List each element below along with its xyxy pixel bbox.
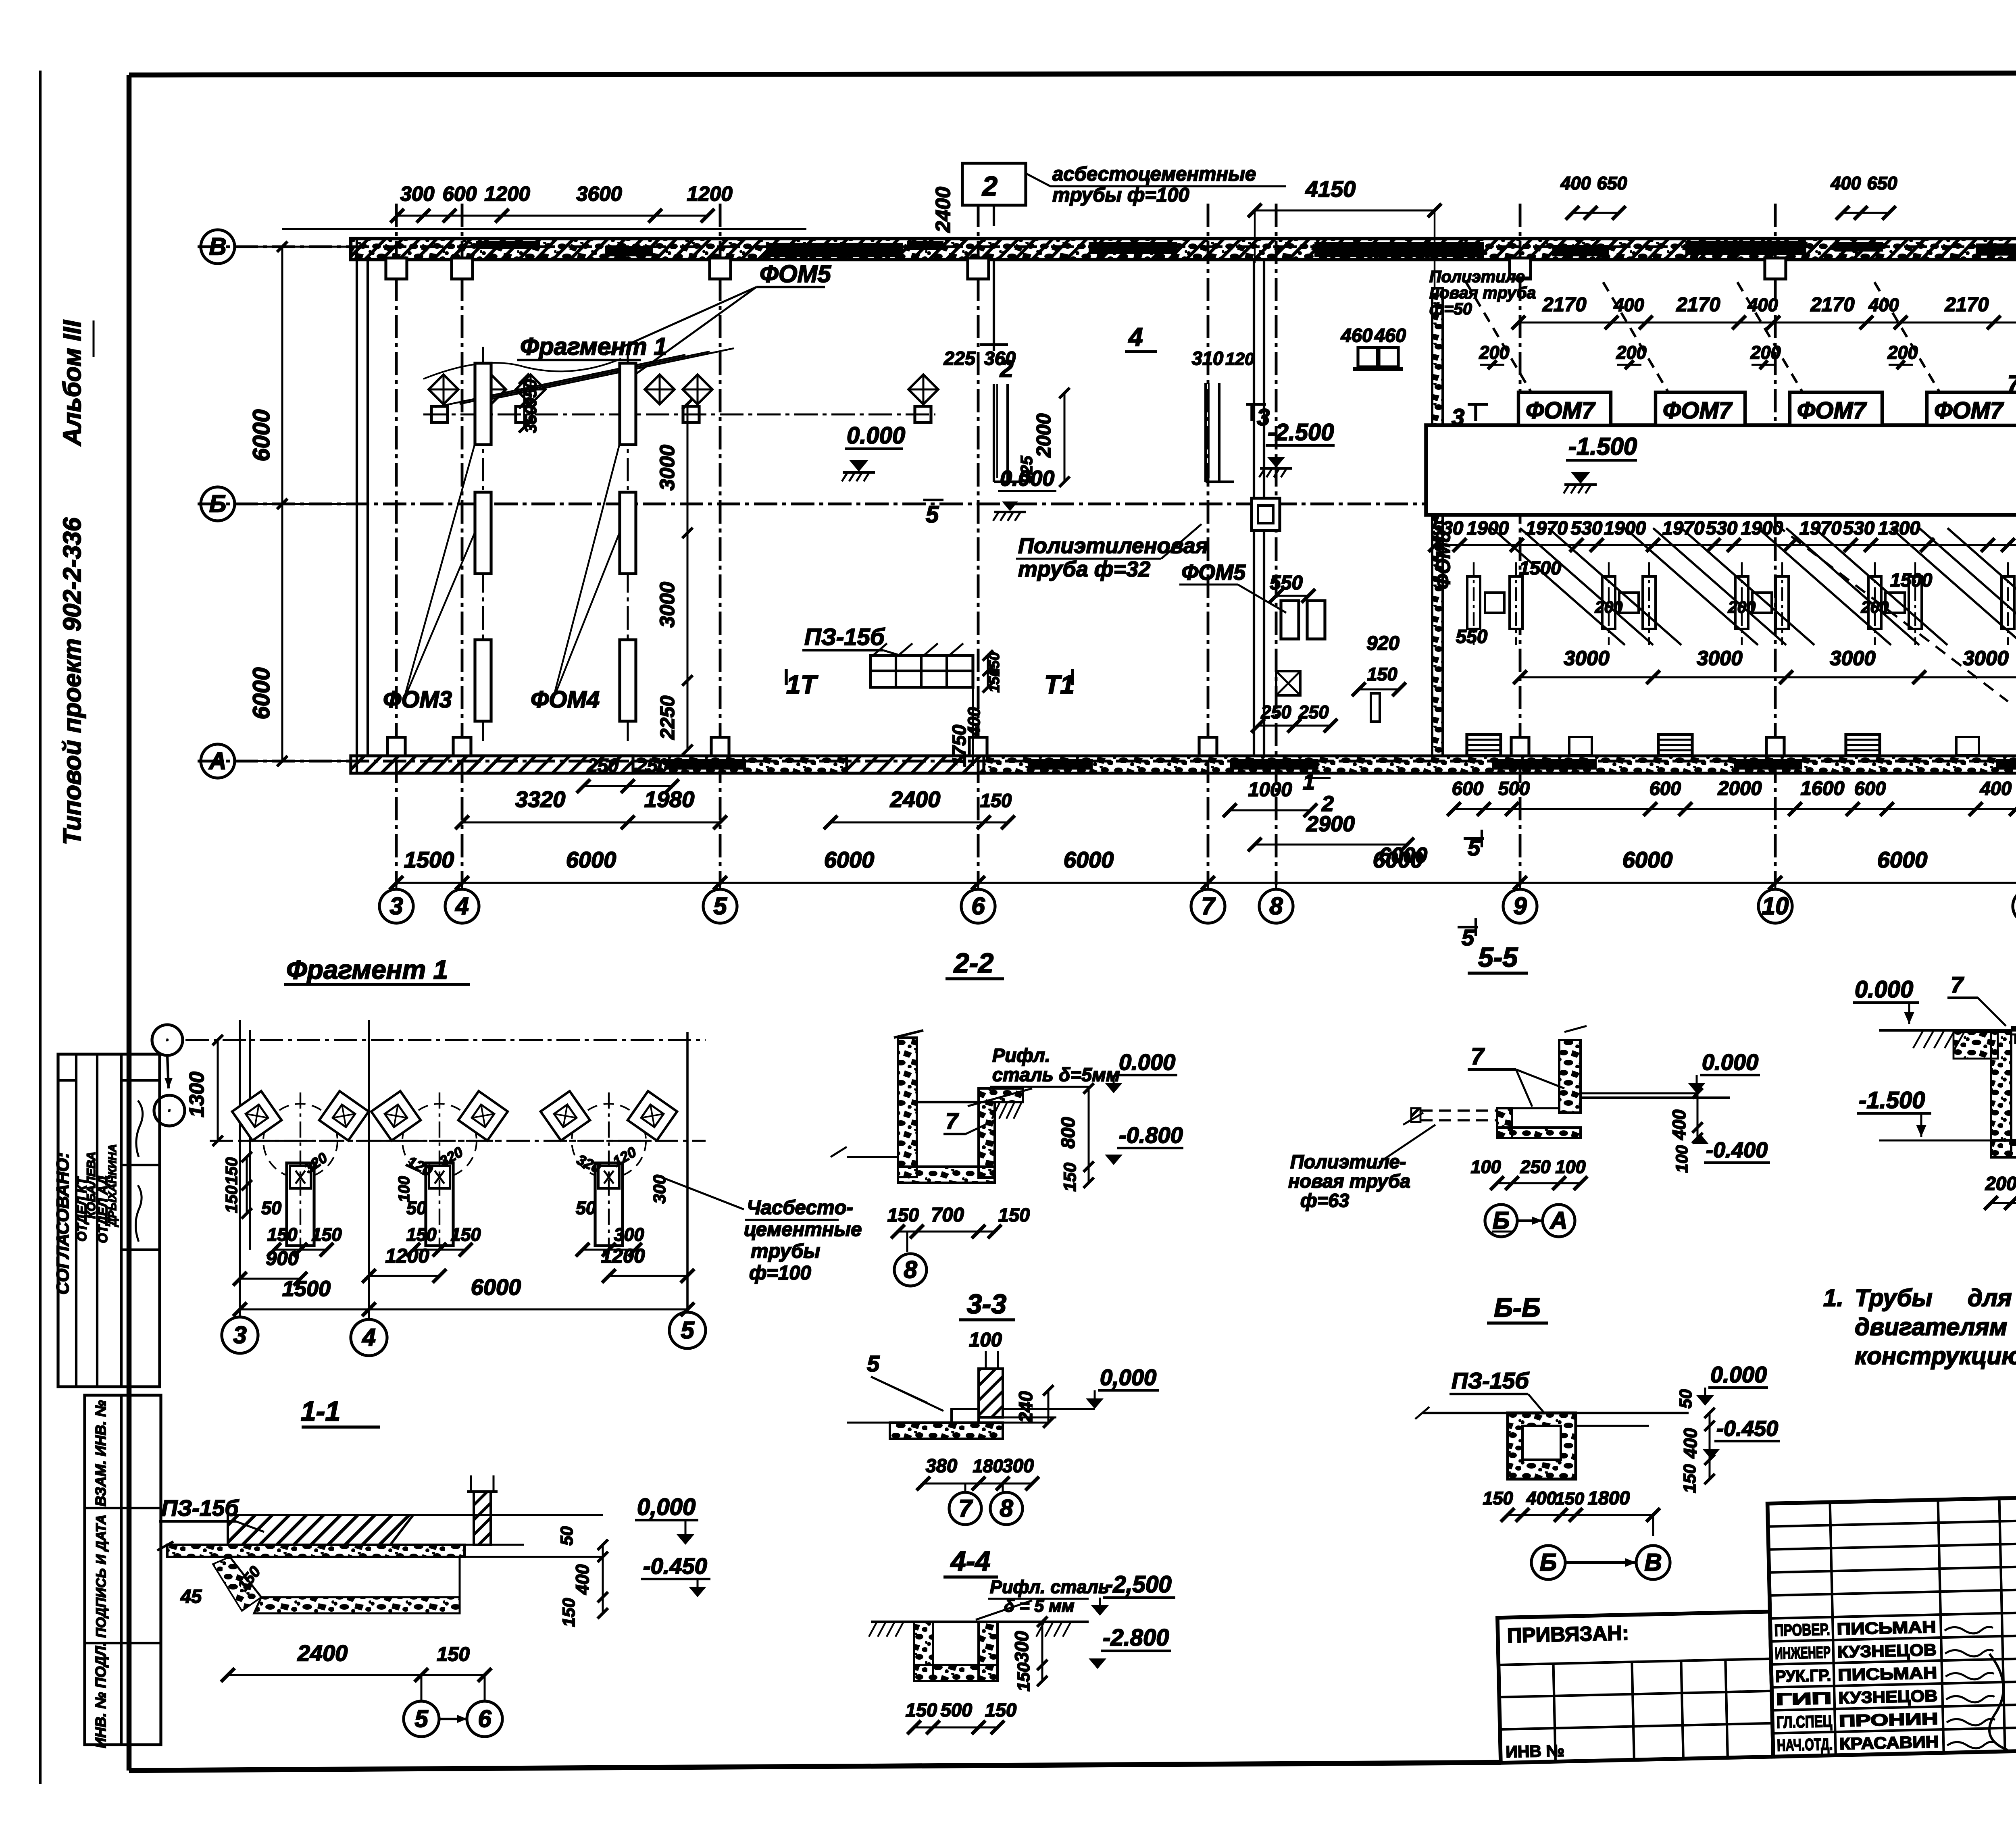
svg-text:1980: 1980 bbox=[644, 786, 695, 812]
svg-text:ДРЫХАНКИНА: ДРЫХАНКИНА bbox=[106, 1144, 119, 1227]
svg-text:6000: 6000 bbox=[1622, 847, 1673, 872]
svg-text:150: 150 bbox=[887, 1204, 919, 1225]
svg-text:ф=63: ф=63 bbox=[1300, 1190, 1349, 1211]
svg-text:1970: 1970 bbox=[1526, 517, 1568, 539]
svg-text:2250: 2250 bbox=[657, 695, 679, 740]
svg-text:1200: 1200 bbox=[385, 1245, 429, 1267]
svg-text:2: 2 bbox=[981, 171, 998, 202]
svg-text:Чacбecтo-: Чacбecтo- bbox=[747, 1197, 853, 1219]
svg-text:250: 250 bbox=[636, 755, 668, 776]
svg-text:250: 250 bbox=[1520, 1157, 1550, 1177]
svg-text:-2.500: -2.500 bbox=[1268, 419, 1334, 445]
svg-text:950: 950 bbox=[521, 379, 540, 407]
svg-text:100: 100 bbox=[1672, 1145, 1691, 1173]
svg-text:250: 250 bbox=[1298, 702, 1329, 722]
svg-text:Т1: Т1 bbox=[1044, 670, 1075, 699]
svg-text:45: 45 bbox=[180, 1585, 202, 1607]
svg-text:1300: 1300 bbox=[185, 1072, 208, 1117]
svg-text:А: А bbox=[1549, 1207, 1567, 1234]
svg-text:Б-Б: Б-Б bbox=[1494, 1292, 1540, 1322]
svg-text:1500: 1500 bbox=[404, 847, 454, 872]
svg-text:50: 50 bbox=[261, 1198, 281, 1218]
svg-text:2170: 2170 bbox=[1944, 294, 1989, 316]
svg-text:530: 530 bbox=[1843, 517, 1874, 539]
svg-text:Типовой проект 902-2-336: Типовой проект 902-2-336 bbox=[58, 517, 86, 845]
svg-text:150: 150 bbox=[985, 1699, 1016, 1721]
svg-text:1500: 1500 bbox=[1519, 557, 1562, 578]
svg-text:А: А bbox=[208, 747, 226, 774]
svg-text:асбестоцементные: асбестоцементные bbox=[1052, 163, 1256, 185]
svg-text:8: 8 bbox=[904, 1256, 917, 1283]
svg-text:4: 4 bbox=[455, 893, 469, 920]
svg-text:6000: 6000 bbox=[566, 847, 616, 872]
svg-text:3000: 3000 bbox=[1697, 647, 1742, 670]
svg-text:50: 50 bbox=[576, 1198, 596, 1218]
svg-text:150: 150 bbox=[437, 1644, 470, 1665]
svg-text:600: 600 bbox=[1452, 778, 1483, 799]
svg-text:ИНВ. № ПОДЛ.: ИНВ. № ПОДЛ. bbox=[92, 1642, 109, 1748]
svg-text:Б: Б bbox=[209, 490, 226, 517]
svg-text:600: 600 bbox=[442, 182, 477, 205]
svg-text:2400: 2400 bbox=[931, 187, 954, 233]
svg-text:150: 150 bbox=[450, 1224, 481, 1245]
svg-text:3600: 3600 bbox=[576, 182, 622, 205]
svg-text:3000: 3000 bbox=[1963, 647, 2008, 670]
svg-text:ФОМ4: ФОМ4 bbox=[531, 687, 600, 713]
svg-text:200: 200 bbox=[1728, 598, 1756, 616]
svg-text:550: 550 bbox=[1456, 626, 1487, 647]
svg-text:2170: 2170 bbox=[1676, 294, 1720, 316]
svg-text:ФОМ8: ФОМ8 bbox=[1433, 531, 1454, 589]
svg-text:0.000: 0.000 bbox=[1000, 466, 1054, 491]
svg-text:50: 50 bbox=[557, 1526, 577, 1546]
svg-text:350: 350 bbox=[521, 406, 540, 433]
svg-text:3000: 3000 bbox=[656, 582, 679, 627]
svg-text:100: 100 bbox=[1470, 1157, 1501, 1177]
svg-text:РУК.ГР.: РУК.ГР. bbox=[1775, 1666, 1831, 1685]
svg-text:3: 3 bbox=[389, 893, 403, 920]
svg-text:0.000: 0.000 bbox=[1119, 1049, 1175, 1075]
svg-text:225: 225 bbox=[943, 347, 976, 369]
svg-text:150: 150 bbox=[1060, 1163, 1080, 1192]
svg-text:300: 300 bbox=[400, 182, 434, 205]
svg-text:ПИСЬМАН: ПИСЬМАН bbox=[1838, 1663, 1937, 1684]
svg-text:5: 5 bbox=[926, 501, 939, 528]
svg-text:1-1: 1-1 bbox=[301, 1396, 340, 1427]
svg-text:ИНВ №: ИНВ № bbox=[1506, 1741, 1565, 1761]
svg-text:8: 8 bbox=[1000, 1495, 1013, 1522]
svg-text:200: 200 bbox=[1861, 598, 1889, 616]
svg-text:7: 7 bbox=[1471, 1043, 1485, 1069]
svg-text:1600: 1600 bbox=[1800, 778, 1844, 799]
svg-text:цементные: цементные bbox=[744, 1219, 862, 1240]
svg-text:1200: 1200 bbox=[687, 182, 732, 205]
svg-text:150: 150 bbox=[311, 1224, 342, 1245]
svg-text:6000: 6000 bbox=[248, 409, 275, 461]
svg-text:-2.800: -2.800 bbox=[1103, 1625, 1169, 1651]
svg-text:В: В bbox=[209, 233, 226, 260]
svg-text:новая труба: новая труба bbox=[1288, 1170, 1410, 1192]
svg-text:ГЛ.СПЕЦ: ГЛ.СПЕЦ bbox=[1776, 1712, 1832, 1731]
svg-text:ФОМ3: ФОМ3 bbox=[383, 687, 452, 713]
svg-text:150: 150 bbox=[222, 1186, 241, 1213]
svg-text:8: 8 bbox=[1269, 893, 1283, 920]
svg-text:двигателям: двигателям bbox=[1855, 1313, 2007, 1340]
svg-text:6000: 6000 bbox=[471, 1274, 521, 1300]
svg-text:0,000: 0,000 bbox=[1100, 1365, 1156, 1390]
svg-text:ФОМ7: ФОМ7 bbox=[1934, 397, 2004, 424]
svg-text:100: 100 bbox=[969, 1329, 1002, 1351]
svg-text:-0.400: -0.400 bbox=[1706, 1138, 1768, 1162]
svg-text:150: 150 bbox=[906, 1699, 937, 1721]
svg-text:360: 360 bbox=[984, 347, 1016, 369]
svg-text:3000: 3000 bbox=[1564, 647, 1609, 670]
svg-text:3320: 3320 bbox=[515, 786, 566, 812]
svg-text:200: 200 bbox=[1595, 598, 1623, 616]
svg-text:ПЗ-15б: ПЗ-15б bbox=[1452, 1368, 1529, 1393]
svg-text:7: 7 bbox=[946, 1108, 959, 1134]
svg-text:-2,500: -2,500 bbox=[1105, 1571, 1171, 1598]
svg-text:ФОМ5: ФОМ5 bbox=[1181, 560, 1246, 585]
svg-text:200: 200 bbox=[1887, 342, 1918, 363]
svg-text:400: 400 bbox=[1560, 173, 1591, 193]
svg-text:ф=100: ф=100 bbox=[749, 1262, 811, 1284]
svg-text:2400: 2400 bbox=[890, 786, 941, 812]
svg-text:конструкцию: конструкцию bbox=[1855, 1342, 2016, 1369]
svg-text:5: 5 bbox=[414, 1705, 429, 1732]
svg-text:380: 380 bbox=[926, 1455, 957, 1476]
svg-text:1900: 1900 bbox=[1604, 517, 1646, 539]
svg-text:Рифл. сталь: Рифл. сталь bbox=[990, 1577, 1109, 1597]
svg-text:650: 650 bbox=[1867, 173, 1897, 193]
svg-text:Полиэтиленовая: Полиэтиленовая bbox=[1018, 534, 1208, 558]
svg-text:7: 7 bbox=[2008, 370, 2016, 396]
svg-text:920: 920 bbox=[1366, 632, 1400, 654]
svg-text:550: 550 bbox=[1270, 572, 1303, 594]
svg-text:В: В bbox=[1644, 1549, 1662, 1576]
svg-text:100: 100 bbox=[1555, 1157, 1585, 1177]
svg-text:5: 5 bbox=[1462, 925, 1475, 950]
svg-text:трубы ф=100: трубы ф=100 bbox=[1052, 184, 1189, 206]
svg-text:150: 150 bbox=[406, 1224, 436, 1245]
svg-text:150: 150 bbox=[1367, 664, 1397, 685]
svg-text:300: 300 bbox=[1011, 1631, 1032, 1662]
svg-text:400: 400 bbox=[1747, 295, 1778, 315]
svg-text:5: 5 bbox=[681, 1317, 695, 1344]
svg-text:4: 4 bbox=[362, 1324, 375, 1351]
svg-text:400: 400 bbox=[1680, 1428, 1701, 1458]
svg-text:1500: 1500 bbox=[282, 1277, 331, 1301]
svg-text:труба ф=32: труба ф=32 bbox=[1018, 557, 1150, 581]
svg-text:6: 6 bbox=[478, 1705, 492, 1732]
svg-text:2900: 2900 bbox=[1306, 812, 1355, 836]
svg-text:50: 50 bbox=[1676, 1389, 1695, 1409]
svg-text:150: 150 bbox=[1483, 1488, 1513, 1508]
svg-text:6000: 6000 bbox=[1379, 843, 1427, 868]
svg-text:0.000: 0.000 bbox=[1855, 976, 1913, 1003]
svg-text:400: 400 bbox=[1669, 1109, 1689, 1140]
svg-text:150: 150 bbox=[222, 1157, 241, 1185]
svg-text:ФОМ7: ФОМ7 bbox=[1526, 397, 1596, 424]
svg-text:1970: 1970 bbox=[1799, 517, 1842, 539]
svg-text:500: 500 bbox=[941, 1699, 972, 1721]
svg-text:10: 10 bbox=[1762, 893, 1789, 920]
svg-text:2400: 2400 bbox=[297, 1640, 348, 1666]
svg-text:6: 6 bbox=[971, 893, 985, 920]
svg-text:400: 400 bbox=[1613, 295, 1644, 315]
svg-text:6000: 6000 bbox=[248, 667, 275, 719]
svg-text:3: 3 bbox=[233, 1321, 246, 1348]
svg-text:150: 150 bbox=[998, 1204, 1030, 1225]
svg-text:ГИП: ГИП bbox=[1776, 1689, 1832, 1708]
svg-text:2-2: 2-2 bbox=[953, 948, 993, 978]
svg-text:4-4: 4-4 bbox=[950, 1546, 990, 1577]
svg-text:200: 200 bbox=[1616, 342, 1646, 363]
svg-text:310: 310 bbox=[1192, 347, 1223, 369]
svg-text:120: 120 bbox=[1225, 350, 1254, 369]
svg-text:1: 1 bbox=[1303, 770, 1315, 794]
svg-text:ПИСЬМАН: ПИСЬМАН bbox=[1837, 1617, 1936, 1638]
svg-text:1800: 1800 bbox=[1588, 1487, 1630, 1508]
svg-text:0.000: 0.000 bbox=[1702, 1049, 1758, 1075]
svg-text:ВЗАМ. ИНВ. №: ВЗАМ. ИНВ. № bbox=[92, 1400, 109, 1506]
svg-text:6000: 6000 bbox=[1064, 847, 1114, 872]
svg-text:3000: 3000 bbox=[1830, 647, 1875, 670]
svg-text:1900: 1900 bbox=[1467, 517, 1509, 539]
svg-text:1200: 1200 bbox=[484, 182, 530, 205]
svg-text:ф=50: ф=50 bbox=[1429, 300, 1472, 318]
svg-text:сталь δ=5мм: сталь δ=5мм bbox=[992, 1064, 1120, 1085]
svg-text:400: 400 bbox=[1868, 295, 1899, 315]
svg-text:5-5: 5-5 bbox=[1478, 942, 1518, 973]
svg-text:1500: 1500 bbox=[1890, 569, 1933, 591]
svg-text:1970: 1970 bbox=[1662, 517, 1705, 539]
svg-text:ПОДПИСЬ И ДАТА: ПОДПИСЬ И ДАТА bbox=[94, 1515, 109, 1638]
svg-text:530: 530 bbox=[1571, 517, 1602, 539]
svg-text:240: 240 bbox=[1015, 1391, 1036, 1423]
svg-text:Полиэтиле-: Полиэтиле- bbox=[1290, 1151, 1406, 1172]
svg-text:ПРИВЯЗАН:: ПРИВЯЗАН: bbox=[1507, 1621, 1629, 1647]
svg-text:600: 600 bbox=[1649, 778, 1681, 799]
svg-text:ПЗ-15б: ПЗ-15б bbox=[804, 624, 885, 650]
svg-text:НАЧ.ОТД.: НАЧ.ОТД. bbox=[1777, 1735, 1833, 1754]
svg-text:400: 400 bbox=[1980, 778, 2012, 799]
svg-text:200: 200 bbox=[1750, 342, 1781, 363]
svg-text:800: 800 bbox=[1057, 1117, 1079, 1148]
svg-text:1900: 1900 bbox=[1741, 517, 1783, 539]
svg-text:3: 3 bbox=[1257, 404, 1270, 431]
svg-text:0.000: 0.000 bbox=[847, 422, 905, 449]
svg-text:150: 150 bbox=[267, 1224, 297, 1245]
svg-text:Альбом III: Альбом III bbox=[58, 320, 86, 447]
svg-text:400: 400 bbox=[572, 1564, 593, 1595]
svg-text:530: 530 bbox=[1706, 517, 1737, 539]
svg-text:Рифл.: Рифл. bbox=[992, 1044, 1050, 1066]
svg-text:-0.450: -0.450 bbox=[1716, 1417, 1778, 1441]
svg-text:ИНЖЕНЕР: ИНЖЕНЕР bbox=[1774, 1643, 1831, 1662]
svg-text:КУЗНЕЦОВ: КУЗНЕЦОВ bbox=[1837, 1640, 1937, 1661]
svg-text:100: 100 bbox=[396, 1176, 413, 1202]
svg-text:-0.800: -0.800 bbox=[1119, 1122, 1183, 1148]
svg-text:В: В bbox=[167, 1039, 169, 1042]
svg-text:0,000: 0,000 bbox=[637, 1494, 696, 1520]
svg-text:Трубы: Трубы bbox=[1855, 1284, 1933, 1311]
svg-text:460: 460 bbox=[1341, 325, 1372, 346]
svg-text:7: 7 bbox=[1951, 972, 1964, 997]
svg-text:7: 7 bbox=[1201, 893, 1216, 920]
svg-text:600: 600 bbox=[1854, 778, 1886, 799]
svg-text:ПРОВЕР.: ПРОВЕР. bbox=[1774, 1620, 1830, 1640]
svg-text:трубы: трубы bbox=[751, 1240, 820, 1262]
svg-text:300: 300 bbox=[1002, 1455, 1034, 1476]
svg-text:250: 250 bbox=[587, 755, 619, 776]
svg-text:2170: 2170 bbox=[1810, 294, 1854, 316]
svg-text:3000: 3000 bbox=[656, 445, 679, 490]
svg-text:4150: 4150 bbox=[1305, 176, 1356, 202]
svg-text:1750: 1750 bbox=[948, 725, 970, 767]
svg-text:3-3: 3-3 bbox=[967, 1289, 1006, 1319]
svg-text:-1.500: -1.500 bbox=[1568, 433, 1637, 460]
svg-text:9: 9 bbox=[1513, 893, 1527, 920]
svg-text:7: 7 bbox=[958, 1495, 973, 1522]
svg-text:150: 150 bbox=[1014, 1662, 1033, 1692]
svg-text:Б: Б bbox=[1493, 1207, 1510, 1234]
svg-text:Б: Б bbox=[1540, 1549, 1557, 1576]
svg-text:КРАСАВИН: КРАСАВИН bbox=[1839, 1732, 1939, 1753]
svg-text:0.000: 0.000 bbox=[1710, 1362, 1767, 1387]
svg-text:650: 650 bbox=[1597, 173, 1627, 193]
svg-text:2000: 2000 bbox=[1717, 778, 1762, 799]
svg-text:1200: 1200 bbox=[601, 1245, 645, 1267]
svg-text:200: 200 bbox=[1985, 1173, 2016, 1194]
svg-text:460: 460 bbox=[1374, 325, 1406, 346]
svg-text:200: 200 bbox=[1479, 342, 1509, 363]
svg-text:Фрагмент 1: Фрагмент 1 bbox=[520, 333, 667, 360]
svg-text:СОГЛАСОВАНО:: СОГЛАСОВАНО: bbox=[53, 1153, 73, 1295]
svg-text:КУЗНЕЦОВ: КУЗНЕЦОВ bbox=[1838, 1686, 1938, 1707]
svg-text:5: 5 bbox=[867, 1351, 880, 1376]
svg-text:ФОМ5: ФОМ5 bbox=[760, 260, 831, 287]
svg-text:4: 4 bbox=[1128, 322, 1143, 352]
svg-text:1000: 1000 bbox=[1248, 779, 1292, 801]
svg-text:6000: 6000 bbox=[824, 847, 875, 872]
svg-text:300: 300 bbox=[614, 1224, 644, 1245]
svg-text:500: 500 bbox=[1498, 778, 1530, 799]
svg-text:150: 150 bbox=[1555, 1489, 1584, 1508]
svg-text:ПРОНИН: ПРОНИН bbox=[1839, 1709, 1938, 1730]
svg-text:для: для bbox=[1968, 1284, 2012, 1311]
svg-text:1Т: 1Т bbox=[786, 670, 818, 699]
svg-text:180: 180 bbox=[973, 1456, 1003, 1476]
svg-text:150: 150 bbox=[980, 790, 1012, 811]
svg-text:ФОМ7: ФОМ7 bbox=[1797, 397, 1867, 424]
svg-text:Фрагмент 1: Фрагмент 1 bbox=[286, 955, 448, 984]
svg-text:150: 150 bbox=[1680, 1464, 1699, 1493]
svg-text:700: 700 bbox=[931, 1204, 964, 1226]
svg-text:6000: 6000 bbox=[1877, 847, 1928, 872]
svg-text:5: 5 bbox=[713, 893, 727, 920]
svg-text:150: 150 bbox=[986, 668, 1002, 693]
svg-text:150: 150 bbox=[559, 1598, 579, 1627]
svg-text:400: 400 bbox=[1526, 1488, 1556, 1508]
svg-text:2000: 2000 bbox=[1033, 413, 1055, 458]
svg-text:-0.450: -0.450 bbox=[643, 1553, 707, 1579]
svg-text:1.: 1. bbox=[1823, 1284, 1843, 1311]
svg-text:900: 900 bbox=[266, 1248, 299, 1269]
svg-text:400: 400 bbox=[1830, 173, 1861, 193]
svg-text:2170: 2170 bbox=[1542, 294, 1586, 316]
svg-text:-1.500: -1.500 bbox=[1859, 1087, 1925, 1113]
svg-text:ФОМ7: ФОМ7 bbox=[1663, 397, 1733, 424]
